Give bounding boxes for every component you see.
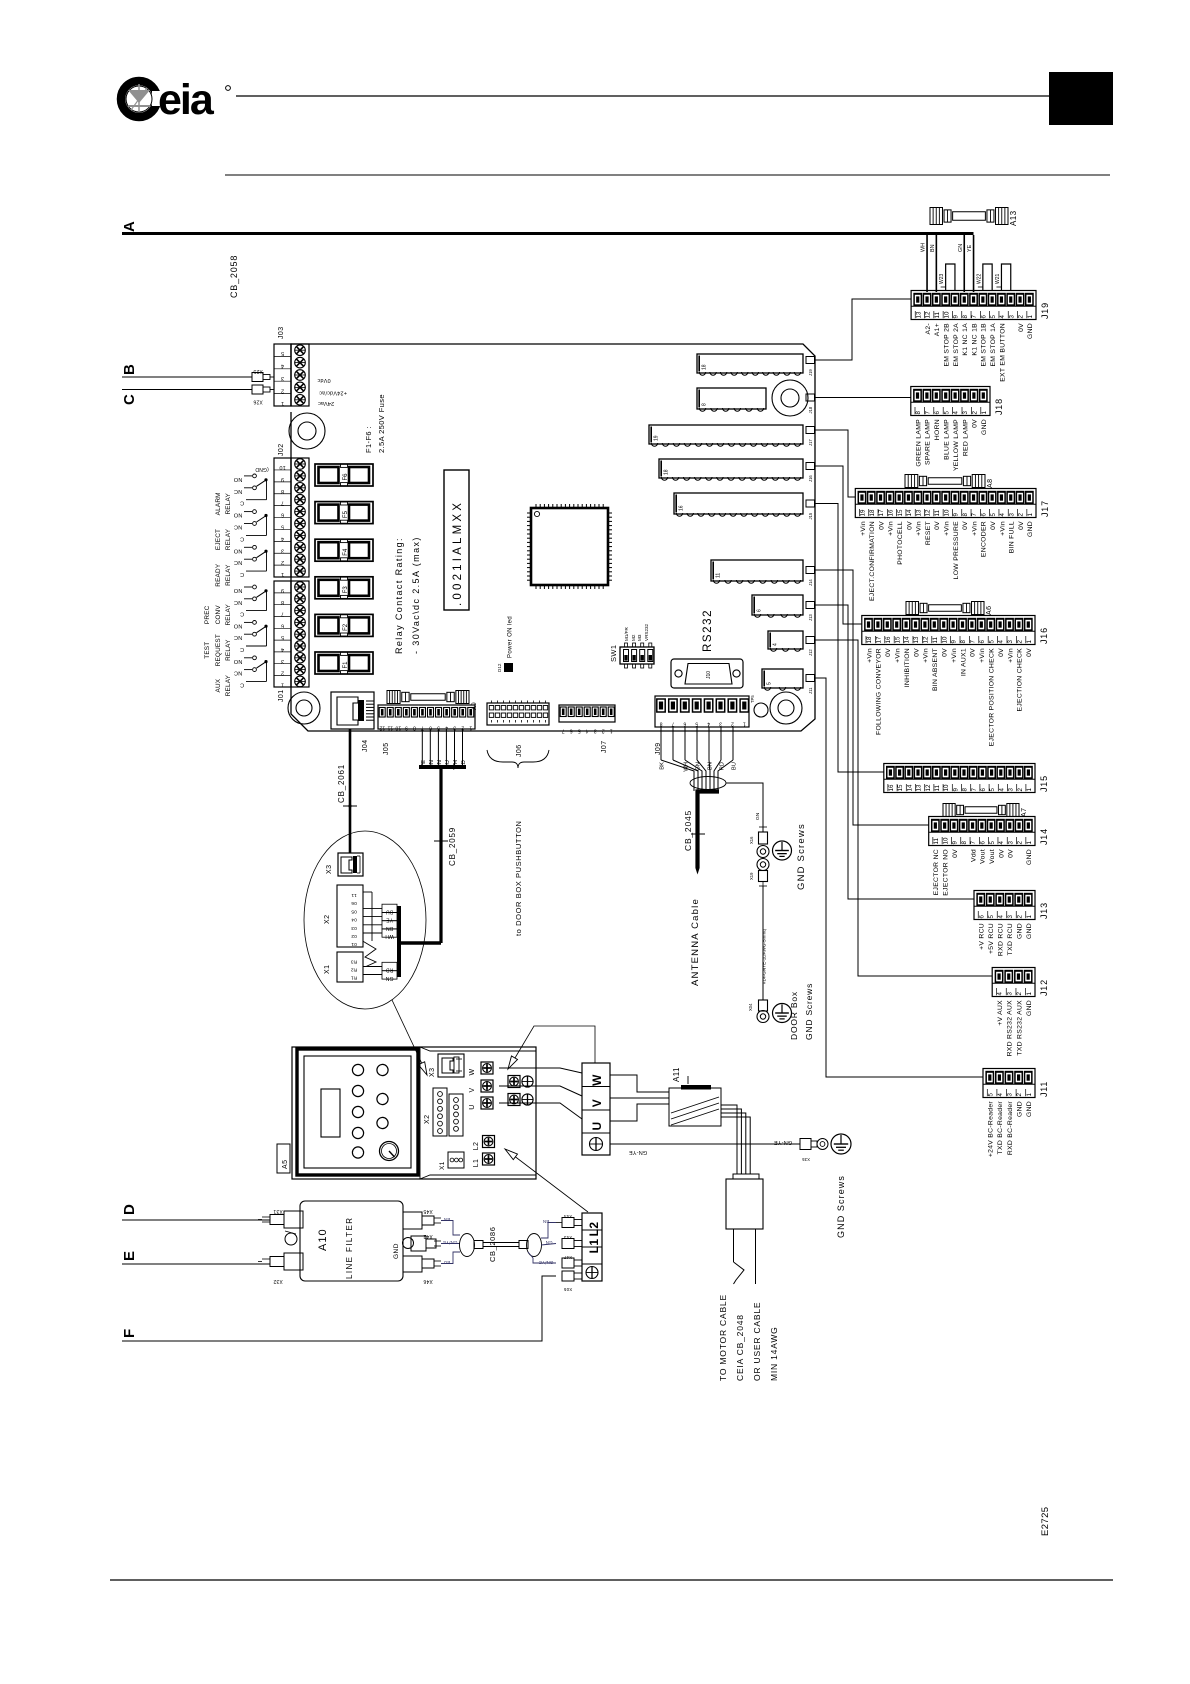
ring terminal X04	[748, 1000, 769, 1023]
svg-text:2: 2	[1017, 841, 1024, 845]
svg-text:2: 2	[602, 728, 605, 734]
svg-text:RELAY: RELAY	[225, 528, 232, 550]
svg-text:9: 9	[952, 841, 959, 845]
svg-text:5: 5	[281, 634, 284, 640]
svg-text:11: 11	[934, 312, 941, 319]
svg-text:X31: X31	[273, 1208, 283, 1214]
svg-text:REQUEST: REQUEST	[215, 634, 222, 666]
microcontroller U1	[527, 504, 612, 589]
svg-text:05: 05	[351, 908, 357, 914]
svg-text:8: 8	[962, 315, 969, 319]
svg-text:6: 6	[281, 622, 284, 628]
svg-text:12: 12	[925, 784, 932, 791]
svg-text:RS232: RS232	[702, 609, 714, 652]
svg-text:A: A	[121, 221, 138, 232]
svg-text:GND: GND	[1016, 1101, 1023, 1117]
svg-text:RXD RS232 AUX: RXD RS232 AUX	[1007, 1000, 1014, 1057]
svg-text:J12: J12	[1039, 979, 1049, 996]
svg-text:7: 7	[970, 841, 977, 845]
connector J15	[884, 764, 1049, 793]
svg-text:DOOR Box: DOOR Box	[789, 991, 799, 1040]
svg-text:GN/YE: GN/YE	[443, 1240, 458, 1245]
svg-text:+5V RCU: +5V RCU	[988, 923, 995, 954]
svg-text:C: C	[121, 394, 138, 405]
svg-text:C: C	[240, 646, 244, 652]
svg-text:R1: R1	[351, 975, 358, 981]
svg-text:16: 16	[888, 784, 895, 791]
svg-text:X26: X26	[253, 399, 263, 405]
svg-text:9: 9	[281, 587, 284, 593]
svg-text:0V: 0V	[952, 849, 959, 858]
svg-text:3: 3	[1006, 992, 1013, 996]
leader to line terminals	[505, 1149, 588, 1212]
svg-text:RXD RCU: RXD RCU	[998, 923, 1005, 956]
wire 14awg gnye to door box	[762, 886, 767, 1000]
svg-text:ANTENNA Cable: ANTENNA Cable	[690, 898, 701, 986]
svg-text:4: 4	[998, 640, 1005, 644]
svg-text:J11: J11	[1039, 1081, 1049, 1097]
svg-text:0V: 0V	[1018, 521, 1025, 530]
svg-text:GND Screws: GND Screws	[804, 983, 814, 1040]
svg-text:5: 5	[989, 788, 996, 792]
faston X47	[562, 1255, 582, 1268]
svg-text:GN/YE: GN/YE	[539, 1260, 554, 1265]
svg-text:EJECTOR NO: EJECTOR NO	[942, 849, 949, 896]
svg-text:F5: F5	[343, 510, 349, 518]
faston X43	[562, 1235, 582, 1249]
svg-text:BN: BN	[543, 1219, 550, 1224]
svg-text:GND: GND	[393, 1243, 400, 1259]
connector J05	[378, 705, 475, 755]
svg-text:L2: L2	[587, 1222, 601, 1237]
board code .0021IALMXX	[444, 470, 469, 610]
wire to J12	[815, 640, 993, 976]
svg-text:W21: W21	[995, 274, 1001, 285]
svg-text:0V: 0V	[906, 521, 913, 530]
svg-text:6: 6	[979, 640, 986, 644]
wire B	[122, 376, 252, 378]
svg-text:1: 1	[1026, 1093, 1033, 1097]
svg-text:CB_2059: CB_2059	[448, 827, 457, 866]
gnd screws symbol	[773, 841, 792, 860]
svg-text:TXD RCU: TXD RCU	[1007, 923, 1014, 955]
svg-text:+Vin: +Vin	[971, 521, 978, 536]
svg-text:Vdd: Vdd	[970, 849, 977, 862]
header rule	[236, 95, 1049, 97]
line terminal block L1 L2	[582, 1213, 602, 1281]
svg-text:10: 10	[943, 784, 950, 791]
svg-text:3: 3	[1007, 640, 1014, 644]
alarm relay contacts	[215, 474, 267, 515]
svg-text:NO: NO	[233, 476, 242, 482]
svg-text:F2: F2	[343, 623, 349, 631]
J15 header	[674, 493, 803, 516]
wires UVW to choke A11	[610, 1075, 669, 1121]
brace to door box pushbutton	[487, 750, 549, 768]
svg-text:J04: J04	[362, 740, 369, 753]
svg-text:X25: X25	[253, 368, 263, 374]
connector J14	[929, 817, 1049, 896]
wire to J19	[815, 299, 912, 360]
svg-text:17: 17	[876, 636, 883, 643]
svg-text:NC: NC	[234, 634, 242, 640]
svg-text:X42: X42	[423, 1233, 433, 1239]
connector J06	[487, 701, 549, 758]
svg-text:FOLLOWING CONVEYOR: FOLLOWING CONVEYOR	[876, 648, 883, 735]
svg-text:+24Vdc/ac: +24Vdc/ac	[319, 389, 347, 395]
svg-text:RELAY: RELAY	[225, 493, 232, 515]
svg-text:4: 4	[707, 721, 710, 727]
svg-text:2: 2	[281, 387, 284, 393]
svg-text:J15: J15	[1039, 775, 1049, 792]
test point TP5	[754, 703, 768, 717]
svg-text:PHOTOCELL: PHOTOCELL	[897, 521, 904, 565]
faston X05	[562, 1271, 582, 1292]
mounting hole top-right	[772, 380, 808, 416]
connector J07	[559, 705, 615, 753]
inverter A5 body	[292, 1047, 536, 1179]
svg-text:15: 15	[897, 509, 904, 516]
svg-text:14: 14	[906, 509, 913, 516]
wire GN-YE to gnd	[610, 1139, 800, 1155]
svg-text:OR USER CABLE: OR USER CABLE	[752, 1302, 762, 1381]
svg-text:F3: F3	[343, 586, 349, 594]
svg-text:8: 8	[915, 411, 922, 415]
svg-text:3: 3	[594, 728, 597, 734]
svg-text:14: 14	[906, 784, 913, 791]
shield A6	[906, 602, 993, 616]
svg-text:X43: X43	[563, 1235, 572, 1240]
svg-text:13: 13	[913, 636, 920, 643]
door box terminal X2	[324, 885, 363, 947]
svg-text:BU: BU	[444, 1260, 451, 1265]
svg-text:4: 4	[953, 411, 960, 415]
board A1 outline	[291, 344, 815, 731]
svg-text:YE: YE	[386, 917, 394, 923]
svg-text:4: 4	[998, 788, 1005, 792]
inverter connector X1	[439, 1152, 464, 1170]
svg-text:F1-F6 :: F1-F6 :	[364, 426, 373, 453]
svg-text:10: 10	[395, 725, 401, 731]
svg-text:A10: A10	[317, 1228, 329, 1251]
edge stub J12	[806, 637, 815, 657]
svg-text:E2725: E2725	[1040, 1507, 1051, 1536]
svg-text:3: 3	[962, 411, 969, 415]
svg-text:7: 7	[281, 611, 284, 617]
jumper W22	[976, 264, 992, 290]
svg-text:TP5: TP5	[750, 695, 755, 703]
svg-text:M2: M2	[631, 634, 636, 641]
svg-text:9: 9	[953, 513, 960, 517]
svg-text:15: 15	[894, 636, 901, 643]
svg-text:BLUE LAMP: BLUE LAMP	[944, 419, 951, 460]
svg-text:3: 3	[1008, 788, 1015, 792]
shield A13	[930, 208, 1018, 227]
faston X31	[258, 1208, 303, 1228]
leader to motor terminals	[508, 1026, 595, 1069]
J11 header	[762, 669, 803, 690]
jumper W23	[939, 264, 955, 290]
svg-text:J17: J17	[1040, 500, 1050, 517]
svg-text:BU: BU	[732, 762, 738, 770]
svg-text:SW1: SW1	[609, 645, 618, 662]
svg-text:NO: NO	[233, 547, 242, 553]
edge stub J11	[806, 675, 815, 695]
door box gnd screw symbol	[773, 1004, 792, 1023]
svg-text:8: 8	[281, 599, 284, 605]
label to motor cable	[718, 1294, 779, 1381]
svg-text:X3: X3	[326, 865, 333, 874]
svg-text:C: C	[240, 611, 244, 617]
svg-text:ALARM: ALARM	[215, 492, 222, 515]
svg-text:BN: BN	[930, 244, 936, 252]
svg-text:J05: J05	[383, 743, 390, 756]
ring terminal X16	[749, 826, 769, 858]
faston X32	[258, 1253, 303, 1284]
svg-text:CB_2058: CB_2058	[229, 255, 239, 298]
eject relay contacts	[215, 510, 267, 551]
svg-text:4: 4	[281, 535, 284, 541]
svg-text:6: 6	[980, 513, 987, 517]
ring terminal X19	[749, 859, 769, 887]
svg-text:GND: GND	[1026, 849, 1033, 865]
svg-text:1: 1	[1026, 915, 1033, 919]
J19 header	[697, 354, 803, 375]
svg-text:3: 3	[281, 375, 284, 381]
svg-text:J13: J13	[1039, 902, 1049, 919]
svg-text:#14-GNYE-1DAWG-5mmq: #14-GNYE-1DAWG-5mmq	[762, 929, 767, 984]
svg-text:4: 4	[999, 513, 1006, 517]
edge stub J13	[806, 602, 815, 622]
svg-text:4: 4	[773, 643, 779, 646]
black corner box	[1049, 72, 1113, 125]
dsub connector J10	[671, 659, 743, 688]
svg-text:GND Screws: GND Screws	[836, 1175, 846, 1238]
svg-text:W: W	[469, 1068, 476, 1075]
svg-text:J12: J12	[808, 649, 813, 656]
svg-text:J14: J14	[1039, 828, 1049, 845]
svg-text:8: 8	[962, 513, 969, 517]
svg-text:+Vin: +Vin	[860, 521, 867, 536]
svg-text:EM STOP 2B: EM STOP 2B	[943, 323, 950, 367]
svg-text:CEIA CB_2048: CEIA CB_2048	[735, 1314, 745, 1381]
svg-text:ENCODER: ENCODER	[981, 521, 988, 557]
svg-text:EJECT.CONFIRMATION: EJECT.CONFIRMATION	[869, 521, 876, 601]
svg-text:RELAY: RELAY	[225, 639, 232, 661]
cable CB_2086	[441, 1217, 556, 1265]
faston X46	[403, 1256, 441, 1284]
svg-text:RELAY: RELAY	[225, 674, 232, 696]
svg-text:CB_2045: CB_2045	[683, 810, 693, 851]
wire to J13	[815, 605, 975, 899]
svg-text:1: 1	[743, 721, 746, 727]
svg-text:F: F	[121, 1328, 138, 1338]
svg-text:GND: GND	[1027, 323, 1034, 339]
svg-text:NC: NC	[234, 670, 242, 676]
svg-text:9: 9	[405, 725, 408, 731]
svg-text:TO MOTOR CABLE: TO MOTOR CABLE	[718, 1294, 728, 1381]
svg-text:13: 13	[915, 311, 922, 318]
svg-text:X2: X2	[324, 915, 331, 924]
svg-text:11: 11	[934, 510, 941, 517]
svg-text:A13: A13	[1009, 210, 1018, 226]
svg-text:X16: X16	[749, 836, 754, 844]
svg-text:C: C	[240, 535, 244, 541]
svg-text:L1: L1	[473, 1159, 480, 1168]
svg-text:1: 1	[281, 681, 284, 687]
svg-text:4: 4	[281, 646, 284, 652]
svg-text:J18: J18	[808, 406, 813, 413]
svg-text:NO: NO	[233, 622, 242, 628]
svg-text:0V: 0V	[942, 648, 949, 657]
svg-text:1: 1	[1026, 640, 1033, 644]
svg-text:0V: 0V	[878, 521, 885, 530]
svg-text:READY: READY	[215, 563, 222, 587]
svg-text:4: 4	[586, 728, 589, 734]
aux relay contacts	[215, 656, 267, 696]
svg-text:+Vin: +Vin	[888, 521, 895, 536]
svg-text:+Vin: +Vin	[895, 648, 902, 663]
svg-text:11: 11	[351, 892, 357, 898]
svg-text:GND: GND	[1026, 923, 1033, 939]
svg-text:W23: W23	[939, 274, 945, 285]
J12 header	[768, 631, 803, 651]
svg-text:SPARE LAMP: SPARE LAMP	[925, 419, 932, 465]
wire to J16	[815, 466, 862, 624]
svg-text:7: 7	[671, 721, 674, 727]
svg-text:8: 8	[659, 721, 662, 727]
svg-text:11: 11	[387, 725, 393, 731]
svg-text:2: 2	[1018, 315, 1025, 319]
svg-text:NC: NC	[234, 488, 242, 494]
leader to inverter	[392, 1000, 424, 1068]
svg-text:06: 06	[351, 900, 357, 906]
svg-text:V: V	[469, 1087, 476, 1092]
svg-text:0V: 0V	[1026, 648, 1033, 657]
svg-text:J13: J13	[808, 614, 813, 621]
motor gnd screw symbol	[831, 1134, 851, 1154]
svg-text:NC: NC	[234, 524, 242, 530]
svg-text:6: 6	[980, 315, 987, 319]
svg-text:J02: J02	[278, 444, 285, 457]
svg-text:4: 4	[997, 992, 1004, 996]
svg-text:J03: J03	[278, 327, 285, 340]
svg-text:J16: J16	[808, 475, 813, 482]
svg-text:3: 3	[281, 658, 284, 664]
svg-text:4: 4	[997, 915, 1004, 919]
svg-text:1: 1	[981, 411, 988, 415]
wire A bus	[122, 232, 974, 235]
svg-text:BK: BK	[660, 762, 666, 770]
door box detail ellipse	[304, 831, 426, 1009]
wire to J17	[815, 430, 856, 497]
svg-text:7: 7	[971, 315, 978, 319]
svg-text:1: 1	[610, 728, 613, 734]
svg-text:RED LAMP: RED LAMP	[962, 419, 969, 456]
svg-text:A2-: A2-	[925, 323, 932, 334]
svg-text:eia: eia	[158, 76, 215, 124]
J18 header	[697, 388, 766, 411]
svg-text:+V AUX: +V AUX	[997, 1000, 1004, 1026]
wire to J15	[815, 504, 884, 773]
svg-text:A7: A7	[1021, 808, 1028, 817]
svg-text:2: 2	[281, 559, 284, 565]
antenna cable CB_2045	[660, 727, 738, 986]
svg-text:X04: X04	[748, 1003, 753, 1011]
edge stub J19	[806, 357, 815, 377]
svg-text:12: 12	[925, 311, 932, 318]
wire D	[122, 1219, 270, 1221]
svg-text:C: C	[240, 681, 244, 687]
svg-text:3: 3	[719, 721, 722, 727]
svg-text:X45: X45	[423, 1208, 433, 1214]
wire to J14	[815, 570, 929, 825]
svg-text:4: 4	[998, 841, 1005, 845]
wire F	[122, 1276, 556, 1341]
svg-text:X2: X2	[424, 1115, 431, 1124]
svg-text:A1+: A1+	[934, 323, 941, 336]
wire to J11	[815, 678, 984, 1077]
wire C	[122, 389, 252, 391]
svg-text:GN: GN	[958, 244, 964, 252]
faston X25	[252, 368, 274, 382]
svg-text:X44: X44	[563, 1214, 572, 1219]
faston X26	[252, 385, 274, 405]
svg-text:AUX: AUX	[215, 678, 222, 692]
fuse F3	[315, 577, 373, 599]
svg-text:8: 8	[281, 488, 284, 494]
svg-text:2: 2	[1017, 640, 1024, 644]
choke A11	[669, 1067, 721, 1126]
svg-text:Relay Contact Rating:: Relay Contact Rating:	[394, 537, 404, 654]
svg-text:11: 11	[933, 838, 940, 845]
svg-text:16: 16	[885, 636, 892, 643]
svg-text:5: 5	[695, 721, 698, 727]
shield A7	[943, 804, 1028, 818]
svg-text:BN: BN	[386, 925, 394, 931]
svg-text:5: 5	[578, 728, 581, 734]
dip switch SW1	[609, 623, 654, 668]
svg-text:X3: X3	[429, 1068, 436, 1077]
svg-text:EJECTOR NC: EJECTOR NC	[933, 849, 940, 895]
mounting hole bottom-left	[288, 692, 320, 724]
fuse F6	[315, 464, 373, 486]
faston X45	[403, 1208, 441, 1229]
connector J17	[855, 489, 1050, 602]
svg-text:RELAY: RELAY	[225, 604, 232, 626]
svg-text:V: V	[590, 1099, 604, 1107]
svg-text:8: 8	[960, 640, 967, 644]
svg-text:BU: BU	[386, 908, 394, 914]
svg-text:F1: F1	[343, 661, 349, 669]
svg-text:TXD RS232 AUX: TXD RS232 AUX	[1016, 1000, 1023, 1056]
svg-text:18: 18	[664, 469, 670, 475]
svg-text:5: 5	[987, 1093, 994, 1097]
svg-text:16: 16	[887, 509, 894, 516]
svg-text:R3: R3	[351, 959, 358, 965]
shield A8	[905, 475, 994, 489]
svg-text:5: 5	[989, 841, 996, 845]
svg-text:0Vdc: 0Vdc	[317, 377, 330, 383]
svg-text:7: 7	[281, 500, 284, 506]
svg-text:R2: R2	[351, 967, 358, 973]
gnd stud X42	[403, 1238, 414, 1249]
svg-text:2: 2	[1016, 1093, 1023, 1097]
svg-text:7: 7	[970, 640, 977, 644]
door box wiring	[363, 892, 441, 981]
svg-text:J11: J11	[808, 687, 813, 694]
svg-text:+24V BC-Reader: +24V BC-Reader	[988, 1101, 995, 1158]
